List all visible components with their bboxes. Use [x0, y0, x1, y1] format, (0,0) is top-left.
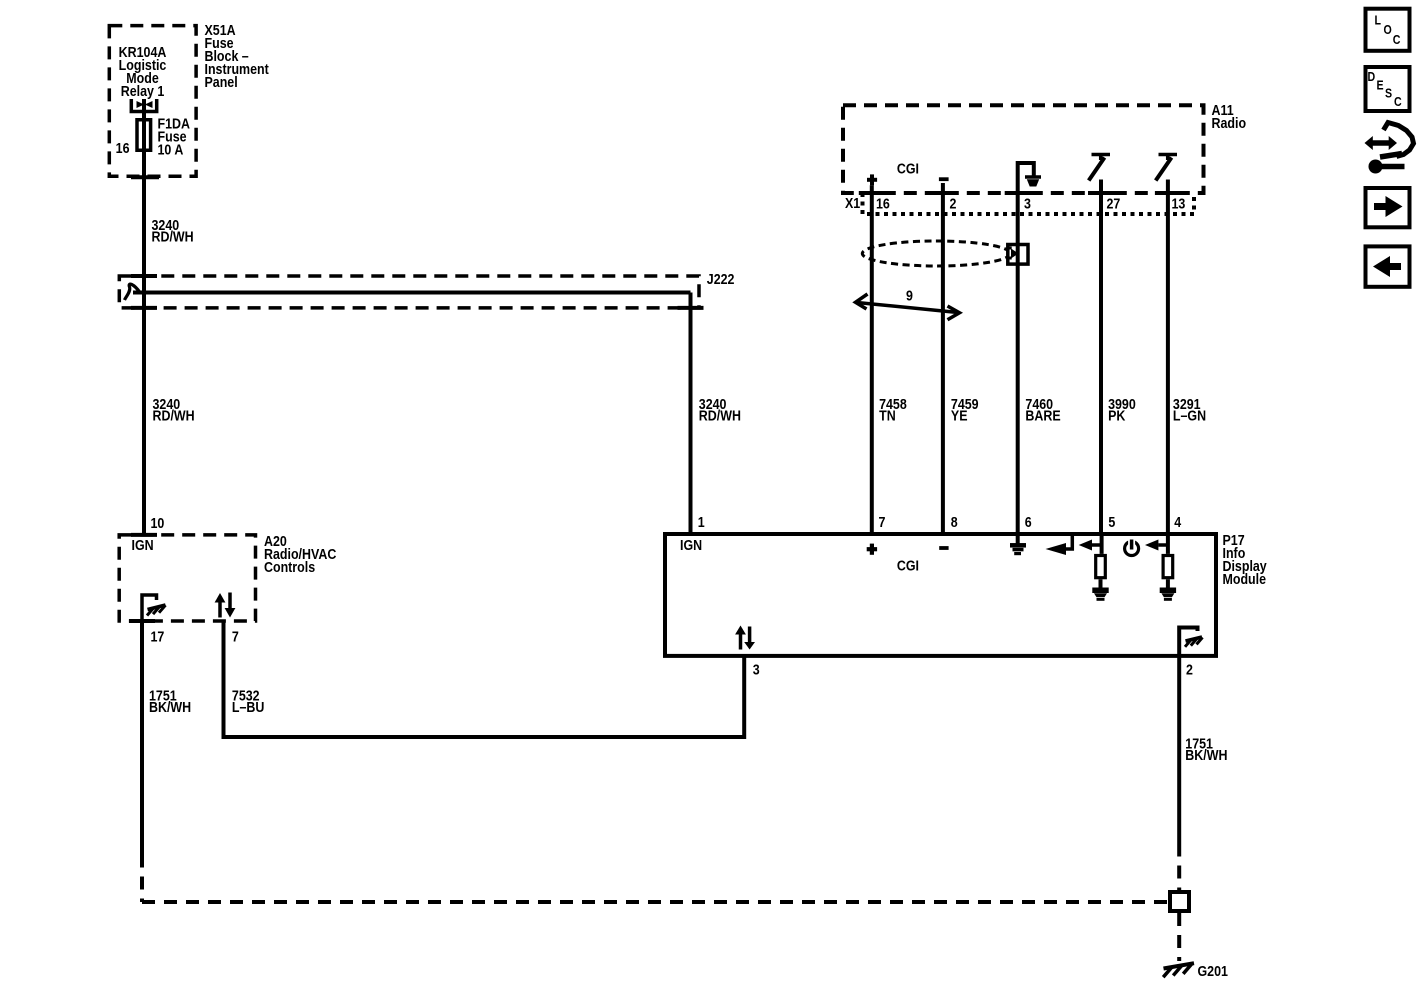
svg-text:5: 5	[1108, 514, 1115, 530]
svg-text:L: L	[1375, 14, 1381, 28]
svg-text:Panel: Panel	[205, 74, 238, 90]
svg-text:13: 13	[1172, 195, 1186, 211]
svg-text:D: D	[1368, 70, 1376, 84]
svg-text:4: 4	[1174, 514, 1181, 530]
svg-text:E: E	[1377, 79, 1384, 93]
svg-text:O: O	[1384, 23, 1392, 37]
svg-text:L–BU: L–BU	[232, 699, 265, 715]
svg-text:16: 16	[116, 140, 130, 156]
svg-text:BK/WH: BK/WH	[1185, 747, 1227, 763]
svg-text:IGN: IGN	[132, 537, 154, 553]
svg-text:3: 3	[753, 661, 760, 677]
svg-text:7: 7	[232, 628, 239, 644]
svg-text:16: 16	[876, 195, 890, 211]
svg-text:Radio: Radio	[1212, 115, 1247, 131]
svg-text:RD/WH: RD/WH	[699, 408, 741, 424]
svg-text:PK: PK	[1108, 408, 1125, 424]
svg-text:L–GN: L–GN	[1173, 408, 1206, 424]
svg-text:S: S	[1385, 87, 1392, 101]
svg-text:Relay 1: Relay 1	[121, 83, 165, 99]
svg-text:BARE: BARE	[1025, 408, 1060, 424]
svg-text:Module: Module	[1223, 571, 1267, 587]
svg-text:RD/WH: RD/WH	[153, 408, 195, 424]
svg-text:10: 10	[151, 515, 165, 531]
svg-text:2: 2	[950, 195, 957, 211]
svg-text:9: 9	[906, 287, 913, 303]
svg-text:YE: YE	[951, 408, 968, 424]
svg-text:7: 7	[879, 514, 886, 530]
svg-text:3: 3	[1024, 195, 1031, 211]
svg-text:2: 2	[1186, 661, 1193, 677]
svg-text:C: C	[1394, 95, 1402, 109]
svg-text:17: 17	[151, 628, 165, 644]
svg-text:RD/WH: RD/WH	[152, 229, 194, 245]
svg-text:G201: G201	[1198, 963, 1229, 979]
svg-text:BK/WH: BK/WH	[149, 699, 191, 715]
svg-text:8: 8	[951, 514, 958, 530]
svg-text:CGI: CGI	[897, 558, 919, 574]
svg-text:1: 1	[698, 514, 705, 530]
svg-text:27: 27	[1107, 195, 1121, 211]
svg-text:IGN: IGN	[680, 537, 702, 553]
svg-text:CGI: CGI	[897, 161, 919, 177]
svg-text:TN: TN	[879, 408, 896, 424]
svg-text:J222: J222	[707, 271, 735, 287]
svg-text:C: C	[1393, 33, 1401, 47]
svg-text:10 A: 10 A	[158, 141, 184, 157]
svg-text:Controls: Controls	[264, 559, 315, 575]
svg-text:X1: X1	[845, 195, 861, 211]
svg-text:6: 6	[1025, 514, 1032, 530]
